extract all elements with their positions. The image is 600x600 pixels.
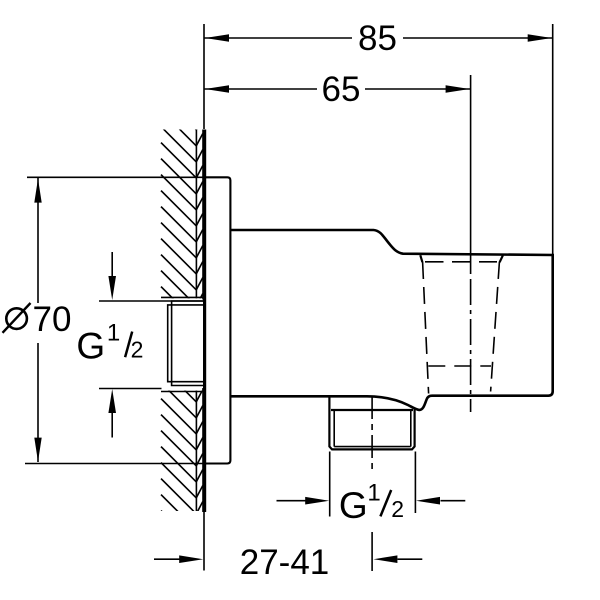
svg-text:2: 2 xyxy=(391,496,404,522)
holder centerline solid part (65 extension) xyxy=(470,75,472,274)
27-41 left arrow xyxy=(154,558,180,560)
rosette (escutcheon) outline xyxy=(203,177,230,463)
wall hatching xyxy=(161,95,198,548)
wall hole white window xyxy=(160,298,202,390)
G1/2 left: extension lines xyxy=(99,300,203,302)
nipple centerline xyxy=(371,396,373,473)
nipple thread end line xyxy=(331,409,413,411)
arrow 85 right xyxy=(528,34,552,41)
svg-text:65: 65 xyxy=(322,70,361,109)
holder cup hidden bottom xyxy=(428,365,491,367)
27-41 right arrow xyxy=(398,558,423,560)
dim line D70 xyxy=(37,178,39,303)
label D70 xyxy=(6,308,27,329)
G1/2 bottom right arrow xyxy=(441,500,466,502)
back port white mask xyxy=(165,300,203,389)
svg-text:27-41: 27-41 xyxy=(240,543,330,582)
holder cup hidden left wall xyxy=(423,262,429,394)
holder cup hidden right wall xyxy=(491,262,500,392)
arrow 85 left xyxy=(205,34,229,41)
body outline xyxy=(230,230,552,410)
G1/2 left arrow up xyxy=(111,413,113,438)
extension line y=177 (rosette top / D70) xyxy=(27,176,206,178)
holder cup hidden rim xyxy=(425,261,497,263)
G1/2 bottom left arrow xyxy=(277,500,306,502)
G1/2 left arrow down xyxy=(111,252,113,277)
svg-text:2: 2 xyxy=(131,337,144,363)
dim line 65 xyxy=(204,88,317,90)
svg-text:G: G xyxy=(339,485,368,526)
holder centerline dashed part xyxy=(470,279,472,412)
arrow 65 left xyxy=(205,85,229,92)
nipple thread minor left xyxy=(333,410,335,447)
holder cup left rim tick xyxy=(420,255,422,262)
back port outer rect xyxy=(172,301,203,386)
arrow 65 right xyxy=(446,85,470,92)
back port inner rect xyxy=(168,305,203,382)
dim line 85 xyxy=(204,37,352,39)
arrow D70 top xyxy=(34,179,41,203)
extension line x=552.7 (85) xyxy=(552,24,554,255)
svg-text:1: 1 xyxy=(107,320,120,347)
svg-text:G: G xyxy=(76,325,105,366)
wall tile-layer chevron hatch xyxy=(196,118,203,531)
nipple chamfer line xyxy=(334,446,411,448)
extension line x=204 top (wall surface) xyxy=(203,24,205,129)
wall hole top edge xyxy=(161,296,203,298)
svg-text:1: 1 xyxy=(367,479,380,506)
outlet nipple G1/2 outline xyxy=(329,396,414,449)
wall layer boundary line xyxy=(195,130,197,512)
svg-text:85: 85 xyxy=(358,19,397,58)
svg-text:70: 70 xyxy=(33,300,72,339)
nipple thread minor right xyxy=(410,410,412,447)
arrow D70 bottom xyxy=(34,438,41,462)
holder cup right rim tick xyxy=(500,255,503,262)
wall surface thick line xyxy=(202,130,206,513)
extension line y=463.5 (rosette bottom / D70) xyxy=(25,463,206,465)
G1/2 bottom: extension lines xyxy=(329,452,331,517)
27-41: extension lines xyxy=(203,512,205,571)
wall hole bottom edge xyxy=(161,391,203,393)
